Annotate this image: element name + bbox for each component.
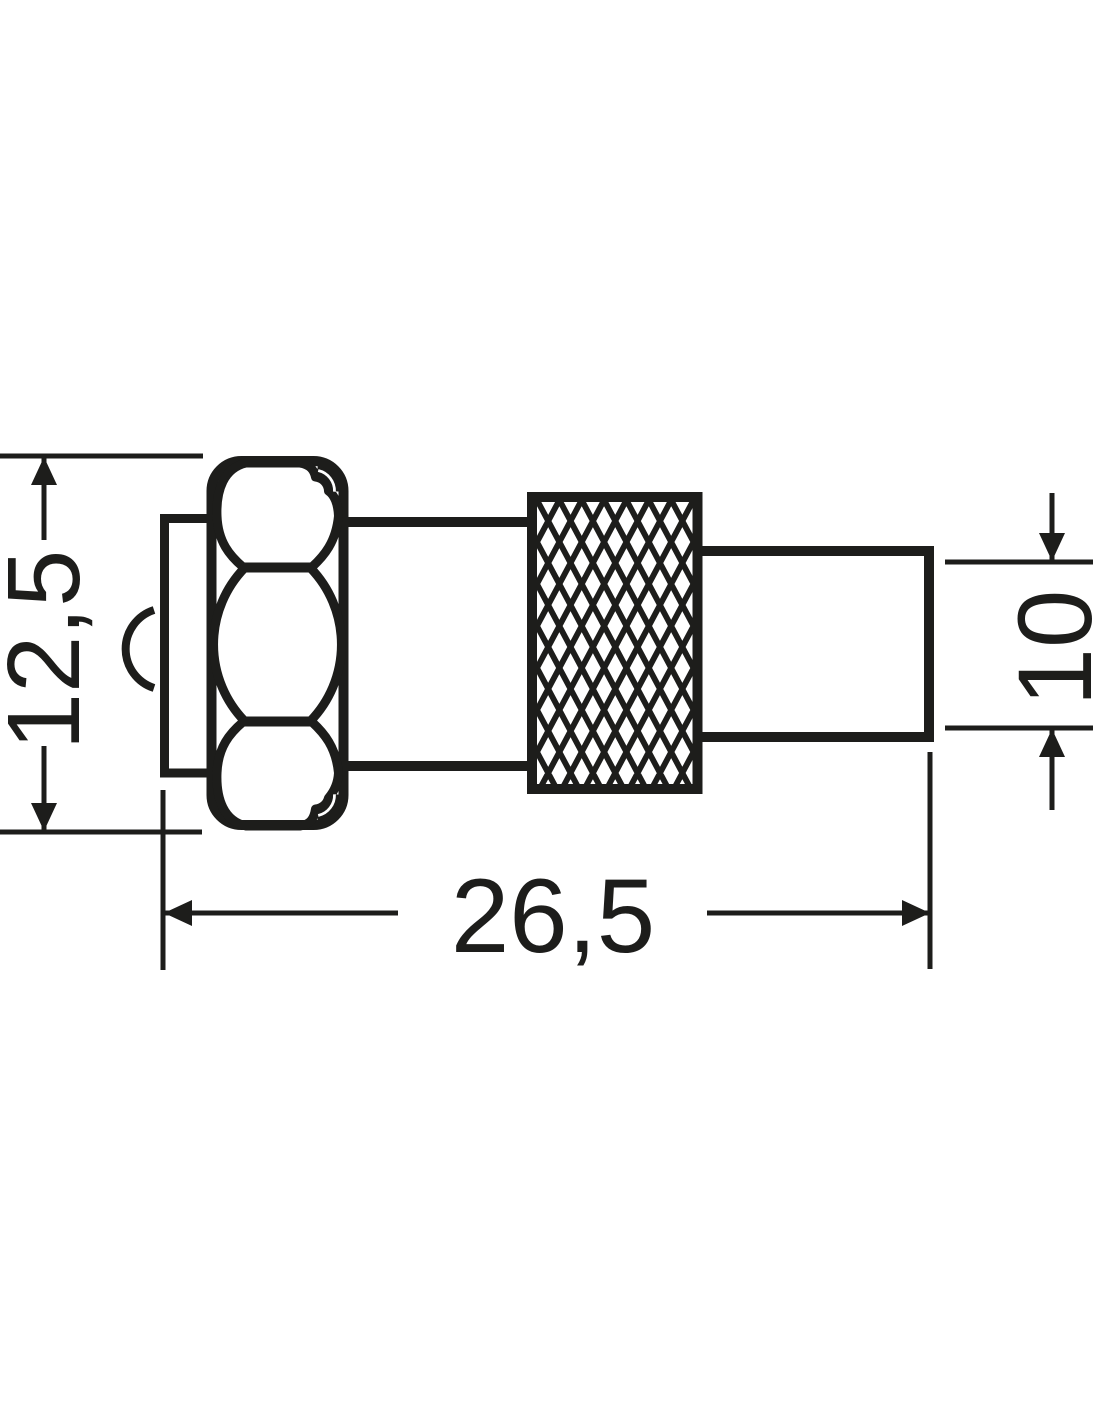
arrow 26,5 right xyxy=(902,900,930,926)
extension line right top (10 upper) xyxy=(945,560,1093,565)
hex nut outline xyxy=(212,461,344,825)
arrow 12,5 down xyxy=(31,803,57,831)
knurl outline xyxy=(532,497,698,789)
dimension line 10 upper segment xyxy=(1050,493,1055,560)
extension line bottom left (26,5) xyxy=(161,790,166,970)
arrow 12,5 up xyxy=(31,457,57,485)
chamfer highlight sliver bottom-right (white) xyxy=(318,794,334,815)
body cylinder bottom line xyxy=(344,761,532,771)
chamfer highlight sliver top-right (white) xyxy=(318,471,334,492)
svg-text:26,5: 26,5 xyxy=(451,858,655,975)
svg-text:10: 10 xyxy=(997,590,1100,707)
dome bump on flange xyxy=(126,610,154,688)
plug cylinder xyxy=(697,551,929,737)
flange rectangle xyxy=(165,519,212,774)
nut middle facet xyxy=(214,568,342,721)
dimension line 26,5 right segment xyxy=(707,911,929,916)
dimension line 10 lower segment xyxy=(1050,730,1055,810)
dimension line 12,5 upper segment xyxy=(42,458,47,540)
extension line bottom right (26,5) xyxy=(928,752,933,969)
body cylinder top line xyxy=(344,517,532,527)
dimension line 12,5 lower segment xyxy=(42,746,47,830)
extension line top-left (12,5 upper) xyxy=(0,454,203,459)
arrow 10 up xyxy=(1039,729,1065,757)
chamfer corner filler bottom-right xyxy=(317,795,335,817)
nut bottom facet xyxy=(217,722,339,826)
dimension line 26,5 left segment xyxy=(165,911,398,916)
extension line right bottom (10 lower) xyxy=(945,726,1093,731)
arrow 26,5 left xyxy=(164,900,192,926)
chamfer corner filler top-right xyxy=(317,470,335,492)
nut top facet xyxy=(217,463,339,567)
svg-text:12,5: 12,5 xyxy=(0,550,101,750)
knurl hatch lines xyxy=(377,494,853,792)
extension line bottom-left (12,5 lower) xyxy=(0,830,202,835)
arrow 10 down xyxy=(1039,533,1065,561)
